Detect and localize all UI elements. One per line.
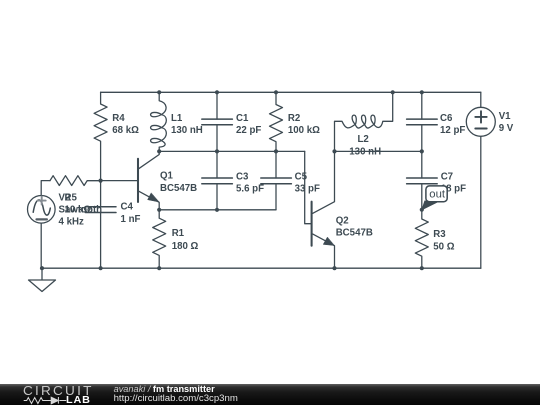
svg-text:12 pF: 12 pF <box>440 125 465 136</box>
resistor R1 <box>153 210 199 268</box>
svg-text:L1: L1 <box>171 113 183 124</box>
svg-text:4 kHz: 4 kHz <box>59 217 84 228</box>
footer logo schematic squiggle <box>0 384 110 405</box>
node L1 top rail <box>157 90 161 94</box>
svg-text:50 Ω: 50 Ω <box>433 241 454 252</box>
svg-text:C4: C4 <box>121 202 134 213</box>
out flag <box>422 186 447 210</box>
node Q1 emitter <box>157 208 161 212</box>
wire mid collector net <box>159 150 305 152</box>
voltage source V2 sawtooth <box>28 181 103 269</box>
node C4 ground <box>99 266 103 270</box>
node R2 top rail <box>274 90 278 94</box>
svg-text:5.6 pF: 5.6 pF <box>236 184 264 195</box>
svg-text:Q2: Q2 <box>336 215 349 226</box>
svg-text:9 V: 9 V <box>499 123 514 134</box>
svg-text:100 kΩ: 100 kΩ <box>288 125 320 136</box>
node Q2 emitter ground <box>332 266 336 270</box>
svg-text:130 nH: 130 nH <box>171 125 203 136</box>
svg-text:BC547B: BC547B <box>336 228 373 239</box>
node Q1 collector <box>157 149 161 153</box>
svg-text:C1: C1 <box>236 113 249 124</box>
svg-text:1 nF: 1 nF <box>121 214 141 225</box>
node L2-Q2 collector <box>332 149 336 153</box>
svg-text:BC547B: BC547B <box>160 183 197 194</box>
wire bottom ground rail <box>42 267 481 269</box>
resistor R3 <box>415 210 454 269</box>
capacitor C4 <box>85 181 140 269</box>
node C1 top rail <box>215 90 219 94</box>
svg-text:68 kΩ: 68 kΩ <box>112 125 139 136</box>
transistor Q1 <box>138 151 197 209</box>
capacitor C5 <box>261 151 320 209</box>
inductor L2 <box>335 92 393 157</box>
node Q1 base <box>99 179 103 183</box>
capacitor C1 <box>202 92 262 151</box>
node C1-C3 <box>215 149 219 153</box>
footer bar <box>0 384 540 405</box>
svg-text:R2: R2 <box>288 113 300 124</box>
svg-text:C5: C5 <box>295 171 308 182</box>
wire top rail <box>101 91 481 93</box>
svg-text:130 nH: 130 nH <box>349 146 381 157</box>
node ground rail V2 <box>40 266 44 270</box>
footer logo LAB <box>66 395 91 405</box>
resistor R2 <box>270 92 321 151</box>
svg-text:R4: R4 <box>112 113 125 124</box>
svg-text:R5: R5 <box>65 193 78 204</box>
node R2-C5 <box>274 149 278 153</box>
svg-text:V1: V1 <box>499 111 511 122</box>
node C3 bottom <box>215 208 219 212</box>
inductor L1 <box>151 92 203 151</box>
transistor Q2 <box>312 151 373 268</box>
footer logo CIRCUIT <box>23 383 94 398</box>
svg-text:out: out <box>429 189 446 201</box>
resistor R4 <box>94 92 139 180</box>
node C6-C7 <box>420 149 424 153</box>
node R1 ground <box>157 266 161 270</box>
svg-text:C7: C7 <box>441 171 453 182</box>
resistor R5 <box>50 176 101 216</box>
wire Q2 base riser <box>305 151 312 223</box>
svg-text:C6: C6 <box>440 113 453 124</box>
svg-text:R3: R3 <box>433 229 446 240</box>
svg-text:33 pF: 33 pF <box>295 184 320 195</box>
svg-text:22 pF: 22 pF <box>236 125 261 136</box>
node C6 top rail <box>420 90 424 94</box>
voltage source V1 9V <box>466 92 513 268</box>
svg-text:10 kΩ: 10 kΩ <box>65 205 92 216</box>
svg-text:L2: L2 <box>358 134 369 145</box>
footer credit text <box>114 384 215 394</box>
wire L2 net <box>335 150 422 152</box>
wire Q1 emitter net <box>159 209 276 211</box>
svg-text:R1: R1 <box>172 228 185 239</box>
capacitor C6 <box>407 92 466 151</box>
node L2 top rail <box>391 90 395 94</box>
node out <box>420 208 424 212</box>
capacitor C3 <box>202 151 264 209</box>
wire Q1 base <box>88 180 139 182</box>
node R3 ground <box>420 266 424 270</box>
capacitor C7 <box>407 151 466 209</box>
svg-text:180 Ω: 180 Ω <box>172 241 199 252</box>
svg-text:Q1: Q1 <box>160 171 174 182</box>
ground <box>29 268 56 291</box>
svg-text:C3: C3 <box>236 171 249 182</box>
